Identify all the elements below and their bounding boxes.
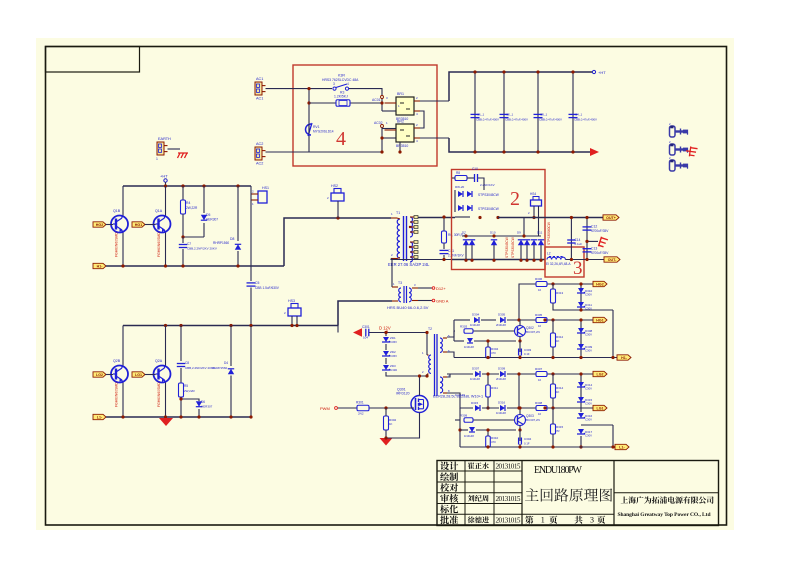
svg-text:10: 10 — [538, 324, 542, 328]
wire q302 c — [519, 320, 521, 326]
junction — [551, 318, 554, 321]
svg-text:20131015: 20131015 — [496, 462, 521, 470]
junction — [249, 324, 252, 327]
standoff U3 — [669, 156, 688, 171]
diode D7 — [462, 231, 469, 246]
svg-text:C30V: C30V — [585, 349, 592, 353]
ground arrow — [159, 418, 173, 426]
net label LG2 right — [593, 371, 607, 376]
wire cap C1 branch — [474, 72, 476, 152]
svg-text:R4: R4 — [186, 201, 190, 205]
wire left vertical — [308, 89, 310, 152]
title main — [525, 488, 612, 502]
svg-text:1K: 1K — [556, 339, 560, 343]
svg-text:LG1: LG1 — [597, 407, 604, 411]
junction — [570, 258, 573, 261]
resistor R302 — [384, 416, 397, 430]
svg-text:C36V: C36V — [390, 354, 397, 358]
wire sec in — [455, 216, 470, 218]
wire zd top — [385, 333, 387, 337]
T3 label — [387, 305, 429, 310]
wire pin5 — [447, 320, 454, 337]
wire r315 b — [552, 434, 554, 447]
wire z284 bot — [581, 308, 613, 310]
svg-text:C304: C304 — [524, 437, 532, 441]
wire D7 dn — [465, 245, 467, 260]
svg-text:10: 10 — [538, 378, 542, 382]
svg-text:IRFD120: IRFD120 — [396, 392, 410, 396]
svg-text:GND A: GND A — [436, 299, 449, 304]
wire snub join — [183, 236, 204, 238]
zener D309 — [577, 344, 593, 353]
junction — [551, 445, 554, 448]
svg-text:Shanghai Greatway Top Power CO: Shanghai Greatway Top Power CO., Ltd — [618, 512, 711, 518]
wire c9b — [478, 178, 484, 190]
junction — [536, 150, 539, 153]
junction — [464, 259, 467, 262]
wire t2 p2 — [426, 374, 428, 376]
wire drive row HG2 — [522, 283, 593, 285]
wire pin7 — [447, 373, 473, 375]
svg-text:2.2NF/1KV: 2.2NF/1KV — [448, 254, 464, 258]
wire cap C2 branch — [503, 72, 505, 152]
wire x613 — [612, 310, 614, 358]
svg-text:R303: R303 — [460, 325, 468, 329]
zener D314 — [577, 382, 593, 391]
wire BR2 pin3 stub — [382, 137, 396, 139]
svg-text:C10: C10 — [472, 167, 478, 171]
svg-text:+HT: +HT — [598, 70, 606, 75]
svg-text:R311: R311 — [491, 386, 498, 390]
svg-text:0.1F: 0.1F — [524, 352, 530, 356]
pin AC01 — [372, 96, 388, 103]
junction — [551, 282, 554, 285]
wire BR1 plus — [420, 100, 449, 102]
resistor R315 — [551, 424, 564, 434]
wire r310 up — [487, 430, 489, 436]
svg-text:AC2: AC2 — [256, 162, 263, 166]
svg-text:1N4148: 1N4148 — [464, 434, 474, 438]
wire RC mid — [443, 243, 445, 249]
svg-text:CBB,0.47uF,400V: CBB,0.47uF,400V — [476, 118, 499, 122]
svg-text:D307: D307 — [472, 367, 480, 371]
svg-text:104: 104 — [363, 336, 368, 340]
diode D6 — [196, 400, 213, 409]
svg-text:Q2A: Q2A — [155, 359, 163, 363]
transformer T1 sec top — [410, 217, 413, 237]
transformer T2 primary — [428, 327, 432, 373]
capacitor C5 — [247, 281, 280, 290]
wire D5 down — [203, 223, 205, 237]
svg-text:2.2NF/1KV: 2.2NF/1KV — [480, 183, 495, 187]
net label OUT- — [604, 257, 620, 262]
label 3 — [573, 258, 583, 279]
diode D306 — [464, 338, 474, 349]
junction AC02 — [380, 136, 383, 139]
junction — [611, 445, 614, 448]
wire RV1 — [308, 124, 310, 134]
pin AC02 — [374, 121, 388, 128]
junction — [164, 415, 167, 418]
text STPS vertical — [505, 237, 515, 258]
wire R3 row — [309, 102, 336, 104]
bridge BR2 — [385, 120, 421, 149]
svg-text:R313: R313 — [556, 291, 564, 295]
junction — [181, 235, 184, 238]
svg-text:D5: D5 — [206, 213, 210, 217]
dual diode D2 — [458, 191, 499, 197]
net label LG1 right — [593, 405, 607, 410]
svg-text:BC307,2N: BC307,2N — [526, 418, 540, 422]
junction — [425, 331, 428, 334]
svg-text:1K: 1K — [556, 390, 560, 394]
net label HG2 — [593, 281, 607, 286]
zener D311 — [577, 302, 592, 311]
resistor R7 — [455, 171, 467, 189]
relay K3R contacts — [333, 82, 349, 90]
junction — [585, 258, 588, 261]
net PWM — [320, 406, 337, 411]
svg-text:0.1F: 0.1F — [524, 442, 530, 446]
resistor R306 — [535, 277, 547, 292]
svg-text:1K: 1K — [389, 422, 393, 426]
wire R4 branch — [182, 186, 184, 200]
junction — [579, 308, 582, 311]
wire BR1 pin3 stub — [382, 110, 396, 112]
connector HS1 — [251, 186, 269, 206]
svg-text:C30V: C30V — [585, 418, 592, 422]
wire d306 row — [454, 340, 464, 342]
svg-text:HER307: HER307 — [206, 218, 218, 222]
svg-text:C1_1: C1_1 — [477, 113, 485, 117]
wire r315 a — [552, 408, 554, 424]
svg-text:2N4148: 2N4148 — [496, 323, 506, 327]
wire D8 down — [237, 251, 239, 266]
svg-text:R305: R305 — [535, 313, 543, 317]
wire earth stub — [587, 240, 598, 242]
svg-text:T2: T2 — [428, 327, 432, 331]
resistor R306b — [535, 313, 547, 328]
svg-text:1N4148: 1N4148 — [496, 411, 506, 415]
wire relay out — [349, 89, 382, 111]
wire HS1 drop — [250, 186, 252, 200]
svg-text:2N4148: 2N4148 — [496, 377, 506, 381]
svg-text:BC307,2N: BC307,2N — [526, 330, 540, 334]
junction — [442, 215, 445, 218]
diode D308b — [496, 367, 506, 382]
svg-text:D315: D315 — [471, 401, 479, 405]
svg-text:R5: R5 — [184, 384, 188, 388]
svg-text:D10: D10 — [490, 231, 496, 235]
wire C5 down — [250, 288, 252, 327]
svg-text:STPS3045CW: STPS3045CW — [478, 193, 499, 197]
diode D10 — [490, 231, 497, 246]
bridge BR1 — [385, 92, 421, 121]
capacitor C304 — [519, 437, 532, 446]
section box 3 — [545, 247, 584, 277]
svg-text:HER307: HER307 — [201, 405, 213, 409]
svg-text:CBB,2.2NF/2KV 20KV: CBB,2.2NF/2KV 20KV — [187, 247, 217, 251]
junction — [571, 70, 574, 73]
junction j217a — [478, 216, 481, 219]
svg-text:T1: T1 — [396, 211, 400, 215]
wire bottom rail - — [449, 138, 592, 152]
svg-text:AC02: AC02 — [374, 121, 383, 125]
wire row320b — [481, 319, 496, 321]
svg-text:RHRP1560: RHRP1560 — [213, 241, 229, 245]
wire q301 drain — [419, 376, 421, 396]
wire D6 h — [181, 399, 199, 401]
transistor Q301 — [396, 388, 428, 413]
wire z374 vert — [580, 374, 582, 407]
zener ZD1 — [382, 336, 397, 344]
junction — [181, 184, 184, 187]
transistor Q2A — [154, 359, 171, 407]
capacitor C11 — [440, 249, 465, 258]
wire gate Q2B — [106, 374, 113, 376]
wire Q2A emitter — [165, 383, 167, 418]
svg-text:AC2: AC2 — [256, 142, 263, 146]
svg-text:2N2: 2N2 — [358, 412, 364, 416]
svg-text:CBB,0.47uF,400V: CBB,0.47uF,400V — [574, 118, 597, 122]
junction — [164, 184, 167, 187]
wire T3 D12 — [418, 287, 432, 289]
junction — [551, 356, 554, 359]
diode D316 — [496, 401, 506, 416]
capacitor C2 — [500, 113, 529, 122]
wire row373a — [482, 373, 499, 375]
diode D307 — [470, 367, 480, 382]
svg-text:1N4148: 1N4148 — [464, 345, 474, 349]
svg-text:3: 3 — [590, 516, 594, 525]
transformer T1 core — [404, 216, 407, 261]
wire HS3 leg1 — [291, 316, 293, 326]
power port +HT — [160, 174, 168, 183]
wire q302 base — [472, 330, 514, 332]
zener D315 — [577, 397, 593, 406]
svg-text:C8: C8 — [185, 361, 189, 365]
wire d12v — [369, 332, 428, 334]
junction — [571, 150, 574, 153]
label K3R — [322, 74, 359, 82]
svg-text:AC1: AC1 — [256, 77, 263, 81]
svg-text:RHRP1560: RHRP1560 — [212, 366, 228, 370]
wire RC bot — [443, 255, 445, 260]
wire base left — [454, 330, 455, 332]
resistor R5 — [179, 383, 196, 397]
wire r314b — [552, 398, 554, 408]
wire z284 vert — [580, 284, 582, 308]
dual diode D3 — [458, 205, 499, 211]
junction — [522, 234, 525, 237]
svg-text:EI 32,26,4R,48-A: EI 32,26,4R,48-A — [546, 262, 571, 266]
capacitor C3 — [534, 113, 563, 122]
svg-text:HG2: HG2 — [596, 283, 603, 287]
svg-text:C301: C301 — [362, 325, 370, 329]
svg-text:BR3510: BR3510 — [396, 144, 408, 148]
capacitor C7 — [179, 242, 217, 251]
junction — [570, 216, 573, 219]
svg-text:MYG20SLD14: MYG20SLD14 — [313, 130, 334, 134]
wire pin8 — [447, 393, 473, 408]
wire r302 top — [385, 408, 387, 416]
wire snub cap — [182, 237, 184, 243]
wire cap C4 branch — [572, 72, 574, 152]
junction r311b — [486, 406, 489, 409]
net label L1- left — [93, 414, 106, 419]
junction r311 — [486, 372, 489, 375]
svg-text:C30V: C30V — [585, 434, 592, 438]
svg-text:HS2: HS2 — [331, 184, 338, 188]
wire C14 vert — [570, 218, 572, 260]
wire q303 base — [472, 419, 514, 421]
svg-text:D8: D8 — [230, 237, 234, 241]
svg-text:AC1: AC1 — [256, 97, 263, 101]
junction — [518, 445, 521, 448]
T2 pins — [422, 334, 450, 393]
junction — [202, 184, 205, 187]
diode D8 — [213, 237, 241, 250]
wire t3 gnd drop — [337, 301, 339, 333]
net label H1- left — [93, 263, 106, 268]
wire d317a — [460, 429, 468, 431]
transformer T1 primary — [396, 211, 400, 258]
wire gate Q1B — [106, 224, 113, 226]
svg-text:2: 2 — [510, 188, 520, 210]
wire top rail upper — [123, 185, 251, 187]
junction — [384, 406, 387, 409]
svg-text:R309: R309 — [460, 414, 468, 418]
svg-text:L1-: L1- — [619, 446, 625, 450]
zener D310 — [577, 288, 593, 297]
junction — [585, 216, 588, 219]
svg-text:HS1: HS1 — [262, 186, 269, 190]
svg-text:3: 3 — [573, 258, 583, 279]
svg-text:EER 27.06 SA/2P 24L: EER 27.06 SA/2P 24L — [388, 262, 430, 267]
wire r302 bot — [385, 430, 387, 438]
wire r312b — [552, 347, 554, 358]
svg-text:BR1: BR1 — [397, 92, 404, 96]
wire C5 col down — [250, 326, 252, 417]
transistor Q1B — [111, 209, 128, 257]
junction — [307, 87, 310, 90]
transformer T2 core — [435, 334, 438, 396]
wire row320c — [507, 319, 593, 321]
connector AC2 — [255, 142, 266, 166]
wire v539 — [538, 218, 540, 237]
resistor R304 — [486, 347, 499, 358]
wire q303 e — [519, 426, 521, 431]
wire z to 447 — [580, 436, 582, 447]
wire C12 vert — [586, 218, 588, 260]
svg-text:D305: D305 — [498, 313, 506, 317]
wire zd m2 — [385, 358, 387, 364]
wire AC1 to relay — [266, 88, 333, 90]
wire HS1 to C5 — [250, 200, 252, 281]
svg-text:FGH60N60SMD: FGH60N60SMD — [157, 232, 161, 257]
junction — [121, 415, 124, 418]
wire e down — [519, 341, 521, 352]
junction 460 430 — [458, 428, 461, 431]
wire c304 down — [519, 444, 521, 447]
resistor R310 — [486, 436, 499, 447]
transformer T3 secondary — [409, 288, 411, 302]
wire zd bot — [386, 372, 427, 376]
wire bottom rail lower — [106, 416, 251, 418]
wire v524 — [523, 218, 525, 237]
wire q301 src — [386, 413, 420, 439]
zener D319 — [577, 429, 593, 438]
transistor Q302 — [515, 326, 540, 337]
wire BR2 out — [420, 137, 449, 139]
svg-text:C30V: C30V — [585, 333, 592, 337]
junction j217b — [496, 216, 499, 219]
junction — [179, 324, 182, 327]
junction — [579, 318, 582, 321]
wire L1- rail — [460, 446, 615, 448]
connector AC1 — [255, 77, 266, 101]
wire pwm row — [337, 407, 414, 409]
svg-text:H1-: H1- — [97, 265, 104, 269]
wire row320 — [454, 319, 470, 321]
earth output — [598, 237, 608, 249]
transformer T3 primary — [398, 281, 402, 302]
wire HS4 leg2 — [538, 206, 540, 218]
wire Dx dn — [533, 245, 535, 260]
svg-text:CBB,0.47uF,400V: CBB,0.47uF,400V — [505, 118, 528, 122]
svg-text:L2: L2 — [547, 252, 551, 256]
wire row408a — [482, 407, 499, 409]
wire gate Q2A — [145, 374, 156, 376]
svg-text:0.1uF: 0.1uF — [575, 242, 583, 246]
junction — [442, 258, 445, 261]
wire R4 down — [182, 214, 184, 237]
wire e430 down — [519, 430, 521, 441]
wire gate Q1A — [145, 224, 156, 226]
svg-text:LG2: LG2 — [597, 373, 604, 377]
diode D5 — [201, 213, 218, 222]
svg-text:D316: D316 — [498, 401, 506, 405]
text STR vertical — [547, 222, 551, 245]
svg-text:2W,22R: 2W,22R — [184, 389, 196, 393]
zener ZD2 — [382, 350, 397, 358]
svg-text:Q1A: Q1A — [155, 209, 163, 213]
diode D9 — [517, 231, 524, 246]
diode D317 — [464, 427, 475, 438]
wire c302 down — [519, 355, 521, 358]
wire anode rail — [452, 259, 545, 261]
section box 2 — [452, 170, 546, 270]
wire mid to xfmr — [284, 218, 391, 266]
svg-text:EARTH: EARTH — [158, 137, 171, 141]
standoff U2 — [669, 140, 688, 155]
wire d306b — [474, 340, 516, 342]
wire lower totem — [518, 374, 520, 408]
ground earth symbol — [178, 153, 189, 158]
svg-text:CBB,2.2NF/2KV 20KV: CBB,2.2NF/2KV 20KV — [185, 366, 215, 370]
title block grid — [437, 461, 719, 526]
svg-text:LG1: LG1 — [135, 373, 142, 377]
junction — [181, 264, 184, 267]
svg-text:PWM: PWM — [320, 406, 330, 411]
capacitor C1 — [471, 113, 500, 122]
page numbers — [525, 516, 605, 525]
connector HS3 — [284, 299, 301, 316]
svg-text:R306: R306 — [535, 277, 543, 281]
svg-text:HRS3 762SLCVDC 48A: HRS3 762SLCVDC 48A — [322, 78, 359, 82]
wire Q2A collector — [165, 326, 167, 366]
wire Q1B emitter — [122, 233, 124, 267]
